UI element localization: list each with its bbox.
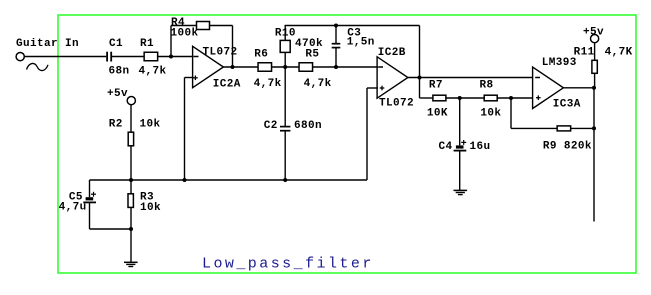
- resistor R3: [128, 194, 133, 208]
- sine symbol: [27, 63, 49, 70]
- svg-text:1,5n: 1,5n: [347, 36, 375, 48]
- resistor R2: [128, 132, 133, 146]
- wire C5 down: [90, 203, 132, 229]
- wire R11 to output node: [594, 73, 596, 88]
- svg-text:IC2B: IC2B: [378, 47, 406, 59]
- resistor R8: [484, 95, 497, 101]
- svg-text:4,7k: 4,7k: [304, 78, 332, 90]
- resistor R4: [197, 22, 210, 30]
- label 4,7k R5: [304, 78, 332, 90]
- resistor R9: [557, 126, 571, 131]
- label 470k: [295, 38, 323, 50]
- wire R4 to IC2A output: [209, 26, 232, 68]
- wire +5v to R11: [594, 43, 596, 61]
- svg-text:+5v: +5v: [583, 26, 604, 38]
- label R5: [305, 49, 319, 61]
- node A junction: [169, 55, 173, 59]
- wire input to C1: [24, 56, 106, 58]
- capacitor C2: [280, 127, 290, 131]
- node top rail C3: [334, 24, 338, 28]
- label R2: [109, 119, 123, 131]
- label 16u: [470, 141, 491, 153]
- label LM393: [542, 57, 577, 69]
- label 100k: [171, 28, 199, 40]
- wire node B up to R10: [284, 52, 286, 67]
- node rail IC2A plus: [183, 178, 187, 182]
- label IC3A: [553, 98, 581, 110]
- svg-text:R2: R2: [109, 119, 123, 131]
- svg-text:IC2A: IC2A: [213, 79, 241, 91]
- C5 plus sign: [91, 192, 96, 197]
- wire R7 to R8: [446, 97, 484, 99]
- label TL072 IC2B: [379, 98, 414, 110]
- capacitor C3: [332, 44, 341, 48]
- svg-text:C4: C4: [439, 141, 453, 153]
- wire +5v to R2: [130, 105, 132, 132]
- wire R5 to IC2B minus: [313, 66, 378, 68]
- label 4,7u: [59, 202, 87, 214]
- node C4 junction: [458, 96, 462, 100]
- label R8: [480, 80, 494, 92]
- wire C2 to rail: [284, 131, 286, 180]
- node B junction: [283, 65, 287, 69]
- wire IC2A plus: [185, 78, 194, 181]
- wire R2 to rail: [130, 146, 132, 180]
- resistor R11: [592, 60, 597, 73]
- label C5: [69, 192, 83, 204]
- svg-text:10k: 10k: [140, 119, 161, 131]
- label R1: [140, 38, 154, 50]
- label 1,5n: [347, 36, 375, 48]
- wire node A up to R4: [171, 26, 197, 58]
- wire IC3A output: [563, 87, 594, 89]
- label IC2B: [378, 47, 406, 59]
- node rail R2: [129, 178, 133, 182]
- svg-text:16u: 16u: [470, 141, 491, 153]
- label 68n: [109, 65, 130, 77]
- label C1: [109, 38, 123, 50]
- capacitor C4: [454, 145, 467, 150]
- node output junction: [592, 86, 596, 90]
- resistor R5: [299, 63, 313, 72]
- op-amp IC3A: [533, 67, 564, 108]
- svg-text:R6: R6: [254, 49, 268, 61]
- svg-text:4,7u: 4,7u: [59, 202, 87, 214]
- label R11: [574, 47, 595, 59]
- ground 1: [124, 262, 138, 266]
- wire node to C4: [459, 98, 461, 145]
- wire node B to C2: [284, 67, 286, 126]
- label R4: [171, 17, 185, 29]
- wire R9 down: [511, 98, 557, 128]
- svg-text:C1: C1: [109, 38, 123, 50]
- svg-text:4,7K: 4,7K: [605, 47, 633, 59]
- wire R8 to LM393 plus: [497, 97, 532, 99]
- node rail C2: [283, 178, 287, 182]
- svg-text:4,7k: 4,7k: [254, 78, 282, 90]
- label C4: [439, 141, 453, 153]
- wire IC2A output: [223, 66, 258, 68]
- svg-text:Low_pass_filter: Low_pass_filter: [202, 255, 374, 272]
- top rail wire: [285, 25, 419, 27]
- wire top rail to C3: [335, 26, 337, 44]
- svg-text:4,7k: 4,7k: [139, 65, 167, 77]
- wire IC2B output: [408, 77, 533, 79]
- label 4,7K: [605, 47, 633, 59]
- label 680n: [294, 120, 322, 132]
- wire C3 to node: [335, 48, 337, 67]
- wire IC2B out down to R7: [420, 78, 434, 99]
- svg-text:+5v: +5v: [107, 88, 128, 100]
- wire R10 to top rail: [284, 25, 286, 41]
- op-amp IC2B: [377, 57, 408, 98]
- label R7: [429, 80, 443, 92]
- svg-text:10k: 10k: [480, 108, 501, 120]
- node output line R9: [592, 126, 596, 130]
- label R3: [140, 192, 154, 204]
- C4 plus sign: [461, 140, 466, 145]
- wire C1 to R1: [112, 56, 144, 58]
- label TL072 IC2A: [203, 46, 238, 58]
- resistor R10: [280, 40, 290, 52]
- label 10k R8: [480, 108, 501, 120]
- wire IC2B plus: [367, 88, 378, 180]
- wire top rail down: [419, 26, 421, 78]
- node IC2B out junction: [418, 76, 422, 80]
- label C3: [347, 27, 361, 39]
- svg-text:Guitar In: Guitar In: [16, 38, 79, 50]
- label 10k R2: [140, 119, 161, 131]
- +5v supply right: [583, 26, 604, 42]
- label 10k R3: [140, 202, 161, 214]
- wire R3 to ground: [130, 207, 132, 229]
- node C5 R3 junction: [129, 227, 133, 231]
- wire rail to R3: [130, 180, 132, 194]
- svg-text:R7: R7: [429, 80, 443, 92]
- svg-text:100k: 100k: [171, 28, 199, 40]
- capacitor C1: [107, 52, 111, 62]
- svg-text:TL072: TL072: [203, 46, 238, 58]
- rail wire: [90, 179, 368, 181]
- frame border: [58, 15, 636, 273]
- resistor R6: [258, 63, 272, 72]
- resistor R7: [433, 95, 446, 101]
- svg-text:LM393: LM393: [542, 57, 577, 69]
- resistor R1: [144, 52, 158, 61]
- +5v supply left: [107, 88, 135, 105]
- label 4,7k R1: [139, 65, 167, 77]
- label IC2A: [213, 79, 241, 91]
- node R9 junction: [509, 96, 513, 100]
- wire to ground1: [130, 229, 132, 262]
- ground 2: [454, 190, 468, 194]
- label 10K: [427, 108, 448, 120]
- label R10: [275, 27, 296, 39]
- capacitor C5: [83, 197, 96, 202]
- svg-text:R9 820k: R9 820k: [543, 141, 592, 153]
- label R9 820k: [543, 141, 592, 153]
- label R6: [254, 49, 268, 61]
- svg-text:10k: 10k: [140, 202, 161, 214]
- wire R1 to IC2A minus: [158, 56, 194, 58]
- svg-text:R11: R11: [574, 47, 595, 59]
- wire rail to C5: [89, 180, 91, 197]
- wire output down: [593, 88, 595, 222]
- svg-text:680n: 680n: [294, 120, 322, 132]
- svg-text:C2: C2: [264, 120, 278, 132]
- node C3 bottom junction: [334, 65, 338, 69]
- title Low_pass_filter: [202, 255, 374, 272]
- svg-text:IC3A: IC3A: [553, 98, 581, 110]
- wire R9 to output line: [571, 127, 594, 129]
- svg-text:TL072: TL072: [379, 98, 414, 110]
- input terminal circle: [16, 53, 24, 61]
- label Guitar In: [16, 38, 79, 50]
- label C2: [264, 120, 278, 132]
- svg-text:R1: R1: [140, 38, 154, 50]
- op-amp IC2A: [193, 46, 224, 87]
- svg-text:R8: R8: [480, 80, 494, 92]
- svg-text:R5: R5: [305, 49, 319, 61]
- label 4,7k R6: [254, 78, 282, 90]
- svg-text:10K: 10K: [427, 108, 448, 120]
- wire C4 to ground: [459, 151, 461, 190]
- node IC2A out junction: [231, 65, 235, 69]
- svg-text:68n: 68n: [109, 65, 130, 77]
- wire R6 to R5: [272, 66, 300, 68]
